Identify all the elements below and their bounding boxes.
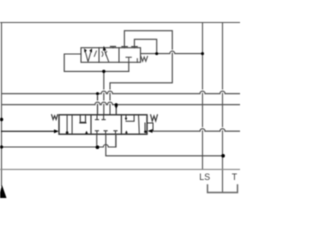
svg-text:T: T: [232, 172, 238, 182]
svg-text:LS: LS: [199, 172, 210, 182]
